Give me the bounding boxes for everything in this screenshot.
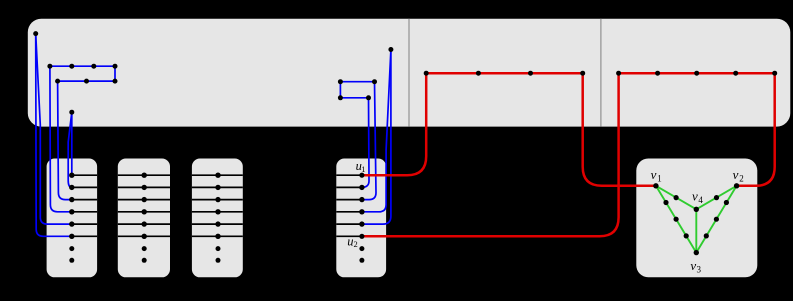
top machine box: [28, 19, 791, 127]
strip 3 row lines: [192, 175, 243, 236]
blue wire b4 to strip u row4: [362, 50, 391, 212]
node v3: [694, 250, 699, 255]
dots: strip u others: [359, 185, 364, 263]
label v3: [690, 258, 701, 275]
svg-text:v: v: [690, 258, 696, 273]
svg-text:4: 4: [698, 195, 703, 205]
svg-text:v: v: [692, 189, 698, 204]
label v2: [733, 167, 744, 183]
divider 2: [600, 19, 602, 127]
node v1: [653, 183, 658, 188]
red bus middle wire: [426, 72, 583, 75]
dots: strip 2: [142, 173, 147, 263]
svg-text:2: 2: [354, 239, 358, 249]
green edge v2-v3: [696, 186, 736, 253]
blue bracket A row2 wire: [58, 80, 115, 82]
dots: blue bracket B: [338, 47, 394, 100]
blue bracket B row1 wire: [340, 81, 374, 83]
green graph box: [636, 159, 757, 278]
green edge v1-v4: [656, 186, 696, 210]
blue bracket B left connector wire: [339, 82, 341, 98]
label v1: [651, 167, 662, 183]
strip 2 box: [118, 159, 170, 278]
strip 1 row lines: [72, 175, 97, 236]
red wire to v1: [583, 73, 656, 186]
svg-text:v: v: [733, 167, 739, 182]
divider 1: [408, 19, 410, 127]
red wire to u1: [362, 73, 426, 175]
svg-text:1: 1: [657, 173, 662, 183]
node u1: [359, 173, 364, 178]
dots: strip 3: [215, 173, 220, 263]
dots: red bus right: [616, 71, 777, 76]
node v2: [734, 183, 739, 188]
dots: blue bracket A: [33, 31, 117, 115]
node u2: [359, 234, 364, 239]
blue wire a5 to strip1 row5: [36, 34, 72, 225]
svg-text:1: 1: [361, 164, 365, 174]
node v4: [694, 207, 699, 212]
label u2: [347, 234, 357, 249]
red wire to u2: [362, 73, 619, 236]
blue bracket B row2 wire: [340, 97, 368, 99]
blue wire a4 to strip1 row4: [50, 66, 72, 212]
strip 3 box: [192, 159, 243, 278]
dots: green subdivision: [663, 195, 729, 238]
strip u row lines: [336, 175, 362, 236]
strip 1 box: [47, 159, 98, 278]
blue wire a6 to strip1 row6: [36, 34, 72, 237]
strip u box: [336, 159, 386, 278]
dots: red bus middle: [424, 71, 586, 76]
green edge v4-v3: [695, 209, 697, 252]
label u1: [356, 159, 366, 174]
blue wire b3 to strip u row3: [362, 82, 376, 200]
label v4: [692, 189, 703, 205]
red wire to v2: [737, 73, 775, 186]
blue bracket A row1 wire: [50, 65, 115, 67]
blue wire b5 to strip u row5: [362, 50, 391, 225]
strip 2 row lines: [118, 175, 170, 236]
dots: strip 1: [69, 173, 74, 263]
blue bracket A right connector wire: [114, 66, 116, 81]
svg-text:3: 3: [697, 265, 702, 275]
svg-text:2: 2: [739, 173, 744, 183]
blue wire a2 to strip1 row2: [68, 112, 72, 187]
green edge v1-v3: [656, 186, 696, 253]
svg-text:v: v: [651, 167, 657, 182]
green edge v2-v4: [696, 186, 736, 210]
blue wire a3 to strip1 row3: [58, 81, 72, 200]
blue wire a1 to strip1 row1: [71, 112, 73, 175]
red bus right wire: [619, 72, 775, 75]
blue wire b2 to strip u row2: [362, 98, 369, 188]
